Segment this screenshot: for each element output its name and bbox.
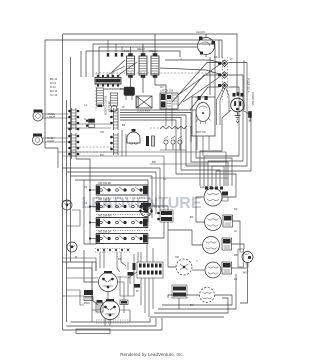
convection motor M4 bbox=[127, 129, 140, 144]
svg-text:INF SW LF: INF SW LF bbox=[98, 198, 111, 202]
resistor R2 (by plug) bbox=[249, 112, 252, 122]
wire mid drop2 bbox=[121, 252, 126, 266]
svg-text:CLOCK: CLOCK bbox=[196, 30, 205, 34]
connector P6 strip bbox=[111, 133, 119, 155]
wire S4 drop bbox=[165, 109, 167, 126]
surface element E1 bbox=[204, 188, 228, 206]
wire DS1 to J1 a bbox=[47, 113, 69, 115]
wire row4 right bbox=[148, 222, 164, 238]
wire left jog K5 bbox=[67, 268, 99, 305]
wire relay loop a bbox=[63, 258, 97, 271]
wire E4 right bbox=[232, 267, 248, 269]
wire left low 1 bbox=[63, 295, 85, 297]
wire left rail D bbox=[44, 40, 46, 148]
wire clock bottom bbox=[205, 55, 207, 58]
wire N bus bbox=[93, 44, 215, 97]
wire K4 feeds bbox=[84, 250, 98, 282]
wire fan S2 feed bbox=[178, 75, 220, 106]
connector P5 strip bbox=[111, 108, 119, 130]
wire M3 stub 1 bbox=[196, 136, 198, 150]
junction column bbox=[84, 180, 96, 244]
dashed sensor line 2 bbox=[76, 151, 112, 153]
misc tiny labels bbox=[75, 55, 238, 307]
svg-text:BR: BR bbox=[152, 160, 156, 164]
wire trio bus bbox=[160, 149, 186, 151]
door lock motor assembly M3 bbox=[192, 96, 215, 136]
coil feed diag 3 bbox=[107, 66, 125, 77]
svg-text:BK: BK bbox=[190, 215, 194, 219]
wire aux drop 3 bbox=[121, 47, 123, 52]
wire ribbon 3 bbox=[120, 115, 224, 186]
wire relay loop b bbox=[91, 262, 93, 322]
wire aux vert 2 bbox=[218, 40, 220, 58]
svg-text:MOTOR: MOTOR bbox=[196, 130, 206, 134]
resistor R1 pair bbox=[146, 136, 155, 146]
wire bottom box 3 bbox=[71, 318, 151, 322]
E1 terminal row bbox=[205, 187, 223, 190]
wire right rail bbox=[243, 60, 245, 110]
wire B4 drop bbox=[240, 270, 248, 303]
wire relay net h bbox=[67, 277, 99, 279]
svg-text:LIGHT: LIGHT bbox=[48, 115, 56, 119]
svg-text:N: N bbox=[84, 117, 86, 121]
infinite switch row SW2 bbox=[96, 202, 150, 215]
wire left rail B bbox=[66, 100, 68, 322]
wire K5 down bbox=[109, 320, 111, 327]
limit switch box TH1 bbox=[223, 215, 233, 227]
oven sensor RTD1 (dashed circle) bbox=[176, 259, 192, 275]
wire clock lower feed bbox=[86, 51, 180, 57]
svg-text:W-12: W-12 bbox=[50, 81, 57, 85]
wire J2 to band bbox=[76, 159, 90, 185]
clock motor B1 bbox=[198, 37, 216, 55]
wire relay right e bbox=[118, 277, 131, 284]
svg-text:OR: OR bbox=[175, 255, 179, 259]
wire coil K2 top bbox=[142, 44, 144, 54]
coil feed diag 2 bbox=[118, 62, 137, 77]
svg-text:R-14: R-14 bbox=[50, 85, 56, 89]
svg-text:4500: 4500 bbox=[84, 301, 91, 305]
infinite switch row SW3 bbox=[96, 218, 150, 231]
svg-text:ELEC CLOCK: ELEC CLOCK bbox=[104, 96, 108, 115]
wire band left 2 bbox=[67, 171, 157, 173]
switch S2 (diamond) bbox=[218, 72, 228, 79]
wire coil K3 top bbox=[154, 34, 156, 54]
wire aux drop 2 bbox=[115, 44, 117, 52]
wire P10 drop 3 bbox=[148, 278, 150, 317]
wire E3 left bbox=[168, 230, 203, 245]
thermal fuse F2 bbox=[120, 300, 128, 313]
wire S1 out bbox=[212, 63, 247, 187]
wire aux drop 1 bbox=[107, 40, 109, 52]
wire bake leg 1 bbox=[168, 295, 200, 298]
wire P10 up 2 bbox=[146, 244, 148, 262]
wire S3 out bbox=[204, 87, 239, 186]
wire P10 drop 1 bbox=[140, 278, 142, 305]
connector J2 strip bbox=[69, 133, 80, 159]
selector switch S5 bbox=[140, 203, 153, 217]
wire ribbon 1 bbox=[120, 110, 232, 186]
wire B4 side bbox=[240, 249, 244, 252]
snubber C2 bbox=[134, 284, 140, 288]
wire coil K3 bottom bbox=[155, 78, 166, 94]
relay coil K2 (broil) bbox=[139, 54, 147, 78]
latch solenoid L1 (hatched strip) bbox=[97, 88, 104, 107]
wire band upper 2 bbox=[62, 156, 164, 210]
svg-text:LIGHT: LIGHT bbox=[47, 139, 55, 143]
wire P10 up 1 bbox=[140, 252, 142, 262]
wire left rail C bbox=[70, 57, 72, 262]
wire relay loop d bbox=[137, 252, 139, 262]
wire diamond fan c bbox=[226, 89, 229, 112]
limit switch box TH3 bbox=[222, 262, 232, 274]
svg-text:P2: P2 bbox=[84, 185, 88, 189]
wire fan feed h2 bbox=[160, 68, 220, 74]
wire mid drop bbox=[117, 252, 120, 272]
wire drop to rows 1 bbox=[159, 168, 161, 210]
terminal cluster P8 bbox=[172, 285, 187, 298]
wire drop to rows 2 bbox=[155, 172, 157, 214]
bake element E5 (dashed) bbox=[200, 288, 215, 303]
wire K4 to K5 bbox=[107, 292, 109, 301]
wire fan S1 feed bbox=[172, 63, 220, 103]
fuse block F1 bbox=[84, 290, 93, 301]
wire band left 1 bbox=[63, 167, 161, 169]
svg-text:L1: L1 bbox=[84, 103, 87, 107]
dotted strip bottom bbox=[96, 320, 130, 323]
dashed control board outline bbox=[96, 73, 214, 128]
svg-text:Y: Y bbox=[196, 259, 198, 263]
wire ribbon 4 bbox=[120, 118, 220, 187]
door switch box S4 bbox=[160, 93, 178, 109]
relay K5 bbox=[101, 299, 120, 320]
tick labels top bbox=[107, 53, 123, 57]
wire bake leg 2 bbox=[162, 295, 232, 305]
wire lower right loop 1 bbox=[222, 192, 236, 197]
svg-text:BK: BK bbox=[214, 55, 218, 59]
wire band extra 1 bbox=[150, 163, 208, 165]
wire E2 right bbox=[233, 221, 241, 249]
zigzag element wire bbox=[160, 126, 187, 129]
dashed gang line 2 bbox=[227, 57, 229, 98]
svg-text:RELAY: RELAY bbox=[137, 47, 146, 51]
coil feed diag 1 bbox=[112, 60, 125, 77]
svg-text:MOT: MOT bbox=[243, 271, 249, 275]
wire relay loop c bbox=[120, 254, 134, 296]
svg-text:TA: TA bbox=[163, 177, 166, 181]
power cord plug P1 bbox=[231, 92, 245, 112]
relay K6 small bbox=[96, 300, 103, 312]
wire diamond fan b bbox=[217, 88, 224, 125]
wire sensor loop bbox=[168, 222, 176, 267]
ground symbol bbox=[235, 112, 241, 123]
svg-text:RF: RF bbox=[234, 207, 238, 211]
wire P10 drop 4 bbox=[152, 278, 154, 309]
snubber C1 bbox=[128, 272, 134, 276]
svg-text:W: W bbox=[136, 289, 139, 293]
wire lower bus 2 bbox=[154, 298, 228, 313]
wire band extra 2 bbox=[150, 177, 228, 179]
infinite switch row SW4 bbox=[96, 234, 148, 244]
wire DS2 to J2 a bbox=[47, 137, 69, 139]
svg-text:R: R bbox=[75, 255, 77, 259]
wire bottom box 2 bbox=[67, 318, 157, 326]
label SW bank rows bbox=[98, 181, 112, 234]
wire K5 bottom bbox=[104, 318, 106, 326]
limit switch box TH2 bbox=[222, 238, 232, 250]
wire drop to rows 4 bbox=[147, 180, 149, 222]
wire L2 bus bbox=[45, 40, 222, 58]
wire gauge labels column bbox=[50, 77, 58, 97]
svg-text:W: W bbox=[230, 57, 233, 61]
svg-text:OR: OR bbox=[100, 130, 104, 134]
wire lower bus 3 bbox=[150, 316, 224, 318]
wire ribbon 2 bbox=[120, 113, 228, 187]
svg-text:INF SW RF: INF SW RF bbox=[98, 181, 112, 185]
wire row feeds left bbox=[62, 190, 96, 239]
infinite switch row SW1 bbox=[96, 185, 150, 198]
terminal block TB1 bbox=[95, 78, 121, 85]
svg-text:RR: RR bbox=[234, 253, 238, 257]
wire L1 top bus bbox=[63, 34, 237, 95]
wire relay net i bbox=[127, 262, 129, 270]
terminal block TB1 lugs bbox=[97, 75, 119, 87]
svg-text:Rendered by LeadVenture, Inc.: Rendered by LeadVenture, Inc. bbox=[120, 352, 184, 357]
svg-text:GY-16: GY-16 bbox=[50, 93, 58, 97]
svg-text:BK-12: BK-12 bbox=[50, 77, 58, 81]
svg-text:INF SW LR: INF SW LR bbox=[98, 230, 111, 234]
wire relay net f bbox=[99, 252, 101, 268]
fan motor B2 bbox=[62, 200, 72, 210]
wire mid verts bbox=[121, 130, 123, 156]
door lock motor box M1 (X box) bbox=[136, 96, 152, 108]
wire drop H bbox=[98, 47, 100, 77]
wire K4 right bbox=[118, 282, 125, 300]
wire aux vert 1 bbox=[209, 57, 211, 95]
fan diag 4 bbox=[178, 65, 220, 96]
terminal cluster P7 bbox=[158, 210, 174, 222]
wire P8 drop bbox=[178, 298, 180, 309]
door switch contacts trio bbox=[164, 136, 182, 150]
wire plug line drop bbox=[216, 111, 251, 187]
wire ribbon 5 bbox=[120, 120, 236, 192]
wire E3 right bbox=[232, 244, 245, 249]
wire rail jog bbox=[45, 148, 58, 168]
wire band left 4 bbox=[75, 179, 148, 181]
svg-text:LF: LF bbox=[234, 229, 237, 233]
wire band upper 1 bbox=[58, 152, 226, 186]
svg-text:LOCK MOT: LOCK MOT bbox=[137, 109, 151, 113]
wire coil K2 bottom bbox=[142, 78, 144, 94]
wire DS2 to J2 b bbox=[47, 141, 69, 143]
wire left rail A bbox=[62, 34, 64, 330]
wire drop F bbox=[85, 51, 87, 77]
svg-text:CORD 50A: CORD 50A bbox=[251, 92, 255, 106]
wire K5 left bbox=[92, 309, 101, 311]
wire rows to P7 bbox=[148, 206, 168, 210]
wire S2 out bbox=[208, 75, 243, 186]
wire K5 right bbox=[120, 310, 131, 322]
svg-text:V: V bbox=[180, 57, 182, 61]
wire diamond fan a bbox=[220, 89, 225, 125]
wire relay net g bbox=[103, 249, 105, 269]
svg-text:BU: BU bbox=[190, 303, 194, 307]
dotted strip P9 bbox=[95, 249, 131, 253]
wire rail to P5 a bbox=[71, 123, 112, 125]
wire drop to rows 3 bbox=[151, 176, 153, 218]
transformer T1 bbox=[124, 87, 135, 100]
contact cluster CJ bbox=[86, 119, 94, 127]
wire left low 2 bbox=[67, 290, 85, 305]
wire left jog K4 bbox=[63, 262, 97, 271]
svg-text:BU-14: BU-14 bbox=[50, 89, 58, 93]
svg-text:W: W bbox=[122, 105, 125, 109]
wire band left 3 bbox=[71, 175, 153, 177]
wire coil K1 top bbox=[130, 47, 132, 54]
wire rail to P5 b bbox=[67, 127, 112, 129]
wire DS1 to J1 b bbox=[47, 117, 69, 119]
svg-text:P4: P4 bbox=[120, 87, 124, 91]
surface element E3 bbox=[203, 237, 220, 254]
wire clock to bus bbox=[205, 34, 207, 38]
wire P10 left diag bbox=[128, 272, 137, 296]
relay coil K3 (conv) bbox=[151, 54, 159, 78]
bottom connector box bbox=[76, 329, 110, 334]
wire E4 left bbox=[192, 269, 205, 271]
wire plug neutral drop bbox=[200, 110, 231, 186]
wire coil K1 bottom bbox=[104, 78, 131, 90]
fan motor B3 bbox=[67, 242, 77, 252]
svg-text:R: R bbox=[158, 205, 160, 209]
svg-text:DLB: DLB bbox=[124, 49, 129, 53]
svg-text:P3: P3 bbox=[84, 201, 88, 205]
wire lower bus 1 bbox=[158, 274, 236, 309]
buzzer BZ1 (strip w/ circle) bbox=[111, 93, 118, 112]
fan diag 5 bbox=[183, 77, 220, 102]
dashed sensor line bbox=[76, 146, 112, 148]
surface element E2 bbox=[205, 214, 222, 231]
svg-text:GY: GY bbox=[160, 85, 164, 89]
wire drop E bbox=[80, 51, 82, 77]
svg-text:RELAY: RELAY bbox=[150, 49, 159, 53]
wire S4 drop2 bbox=[171, 109, 173, 126]
wire fan feed h1 bbox=[165, 60, 220, 63]
wire E1 to E2 bbox=[196, 197, 205, 222]
dashed gang line for switches bbox=[222, 57, 224, 100]
relay K4 bbox=[99, 271, 118, 292]
wire bottom box 1 bbox=[63, 318, 163, 330]
switch S1 (oven light, diamond) bbox=[218, 60, 228, 67]
oven lamp DS1 bbox=[33, 110, 47, 122]
wire fan S3 feed bbox=[190, 87, 220, 110]
svg-text:INF SW RR: INF SW RR bbox=[98, 214, 112, 218]
wire clock feed bbox=[99, 46, 197, 48]
svg-text:LR: LR bbox=[234, 277, 237, 281]
wire M3 stub 2 bbox=[202, 136, 204, 156]
connector J1 strip bbox=[69, 108, 80, 130]
switch S3 (diamond) bbox=[218, 82, 228, 89]
wire M3 stub 3 bbox=[208, 136, 210, 150]
wire P10 up 3 bbox=[152, 248, 154, 262]
svg-text:BK: BK bbox=[122, 123, 126, 127]
svg-text:LATCH SW: LATCH SW bbox=[160, 89, 174, 93]
relay coil K1 (bake) bbox=[127, 54, 135, 78]
door lock motor B4 bbox=[238, 249, 253, 270]
wire relay net j bbox=[119, 276, 121, 296]
wire drop G bbox=[92, 44, 94, 77]
wire P10 drop 2 bbox=[144, 278, 146, 313]
surface element E4 bbox=[205, 262, 221, 278]
connector P10 (double row) bbox=[133, 262, 164, 278]
oven lamp DS2 bbox=[33, 134, 47, 146]
svg-text:BU: BU bbox=[100, 153, 104, 157]
